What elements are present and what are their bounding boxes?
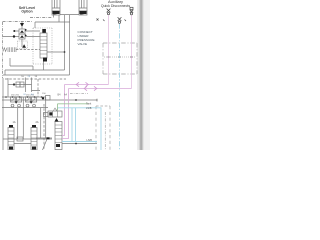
- tick marks near QD2: [103, 20, 126, 22]
- wire workline A y70: [5, 69, 65, 71]
- hose line 1: [65, 84, 109, 86]
- flow arrow y36: [13, 35, 15, 37]
- self level boundary dash-dot: [2, 22, 4, 78]
- cyl1 cushion dot: [53, 12, 55, 15]
- cylinder CYL2 rod: [79, 0, 87, 8]
- labels: [11, 0, 130, 142]
- wire head-end vertical x69.5: [69, 15, 71, 75]
- spool S3 hatch: [55, 125, 62, 143]
- self level spool body: [40, 33, 47, 58]
- quick disconnect QD1: [97, 7, 134, 23]
- manifold lower rail y107.5: [2, 107, 48, 109]
- cyl2 base block: [80, 11, 87, 14]
- svg-text:Tank: Tank: [86, 102, 92, 105]
- wire port A to valve: [3, 36, 40, 38]
- spool S2 hatch: [31, 131, 37, 145]
- manifold top line y97: [2, 96, 46, 98]
- inlet line y66: [10, 58, 33, 70]
- right margin background: [144, 0, 150, 150]
- valve enclosure dashed top: [5, 78, 66, 80]
- cylinder CYL1 rod: [52, 0, 60, 8]
- wire rod-end vertical x64.5: [64, 15, 66, 70]
- spool S3 body: [55, 122, 62, 150]
- check poppet 2: [20, 35, 24, 38]
- black symbol blobs: [9, 11, 87, 150]
- spool S2 bottom cap: [32, 147, 36, 150]
- bottom-right dashed box: [95, 106, 97, 150]
- LSB dash-dot vertical: [104, 112, 106, 150]
- anticav circle 2: [26, 104, 29, 107]
- aux pilot side box: [44, 113, 49, 117]
- svg-text:250 250: 250 250: [11, 94, 20, 96]
- spool S2 body: [31, 128, 37, 151]
- inlet check line y84.5: [8, 78, 40, 93]
- tank triangle top: [20, 23, 24, 27]
- enclosure dashed mid: [43, 104, 45, 150]
- hose line 2 riser left: [62, 89, 69, 139]
- quick disconnect QD3: [130, 7, 133, 9]
- cylinder CYL2 body: [79, 0, 87, 11]
- mark x97: [97, 19, 99, 21]
- svg-text:Option: Option: [21, 10, 32, 14]
- relief pilot dashed line: [16, 49, 40, 51]
- QD center dash-dot: [119, 24, 121, 151]
- svg-text:LS/B: LS/B: [86, 107, 92, 110]
- wire cyl1 rod port: [35, 15, 70, 28]
- svg-text:VALVE: VALVE: [78, 42, 88, 46]
- wire tank stub: [21, 22, 23, 30]
- svg-text:LS/B: LS/B: [87, 139, 93, 142]
- SL dotted enclosure: [33, 28, 52, 64]
- section verticals: [17, 108, 19, 139]
- wire relief drop: [21, 39, 23, 47]
- bottom gallery lines: [3, 138, 52, 140]
- hose line 1 riser right (QD): [108, 15, 110, 85]
- hose line 2 riser right (QD): [131, 15, 133, 89]
- left boundary solid: [2, 78, 4, 150]
- pilot dash-dot y93.5: [70, 93, 88, 95]
- hose line 2: [69, 88, 132, 90]
- scrollbar strip: [139, 0, 145, 150]
- spool SL bottom cap: [43, 58, 47, 62]
- port relief cluster 2: [26, 97, 31, 102]
- cluster3 relief box: [46, 96, 51, 101]
- cyan LS lines: [57, 24, 120, 151]
- dotted box around triangle: [18, 41, 28, 49]
- wire port B to valve: [14, 30, 40, 32]
- svg-text:Quick Disconnects: Quick Disconnects: [101, 4, 131, 8]
- port relief cluster 1: [11, 97, 16, 102]
- inlet check squares: [16, 82, 20, 87]
- dotted crossline y57: [104, 56, 136, 58]
- wire cyl1 port drop: [53, 15, 55, 18]
- check poppet 1: [20, 30, 24, 33]
- hose line 1 riser left: [62, 85, 65, 136]
- port dot y31: [13, 30, 15, 32]
- cluster3 relief dot: [42, 97, 44, 99]
- cylinder CYL1 base block: [52, 11, 60, 15]
- aux pilot valve body: [48, 111, 62, 117]
- aux solenoid dot: [49, 112, 52, 115]
- wire cylinder bottom header: [60, 14, 79, 16]
- left feeder x8: [7, 78, 9, 97]
- check valve CV2: [19, 34, 25, 39]
- svg-text:2A: 2A: [36, 121, 39, 124]
- anticav circle 1: [11, 104, 14, 107]
- spool S3 bottom cap: [56, 144, 60, 147]
- check valve CV1: [19, 29, 25, 34]
- aux cyan risers: [71, 108, 73, 142]
- check nubs: [25, 29, 27, 31]
- cyan bottom run: [62, 141, 97, 143]
- cyl2 cushion dot: [80, 12, 82, 15]
- green tank line: [58, 104, 89, 111]
- relief valve spring zigzag: [3, 48, 7, 52]
- spool SL top cap: [42, 29, 46, 33]
- cylinder CYL2 base block: [79, 11, 87, 15]
- magenta arrows line1: [76, 82, 97, 90]
- wire CUP valve branch y52: [47, 51, 65, 53]
- junction dots: [5, 51, 132, 144]
- wire workline B y75: [3, 74, 70, 76]
- self level boundary top: [3, 21, 33, 23]
- spool S1 hatch: [8, 131, 14, 145]
- pilot dash-dot line y17.5: [30, 17, 52, 19]
- cylinder CYL1 body: [52, 0, 60, 11]
- magenta arrows line2: [84, 86, 87, 90]
- cyl1 base block: [53, 11, 60, 14]
- spool S1 body: [8, 128, 14, 151]
- filled triangle in dotted box: [22, 44, 26, 48]
- lever nub: [47, 137, 50, 139]
- LS horizontal: [57, 108, 101, 150]
- dash-dot QD box: [103, 43, 137, 74]
- cluster2 poppet: [30, 101, 33, 103]
- spool S2 cap: [32, 125, 36, 127]
- spool S1 cap: [9, 125, 13, 127]
- y100 end tick: [96, 99, 98, 102]
- page edge gutter: [137, 0, 139, 150]
- valve enclosure dashed left: [37, 79, 39, 97]
- quick disconnect QD2: [118, 17, 122, 21]
- aux pilot spring: [54, 108, 59, 111]
- lever box: [17, 137, 23, 141]
- wire SL drain: [43, 62, 45, 71]
- lever diagonal: [43, 139, 48, 150]
- relief valve hatch: [8, 47, 16, 52]
- magenta work lines: [62, 15, 132, 139]
- cluster1 poppet: [15, 101, 18, 103]
- spool S1 bottom cap: [9, 147, 13, 150]
- self level spool hatch: [40, 37, 47, 55]
- wire connector x5: [4, 70, 6, 75]
- spool S3 cap: [55, 118, 59, 122]
- manifold main line y100: [2, 99, 97, 101]
- svg-text:1A: 1A: [13, 121, 16, 124]
